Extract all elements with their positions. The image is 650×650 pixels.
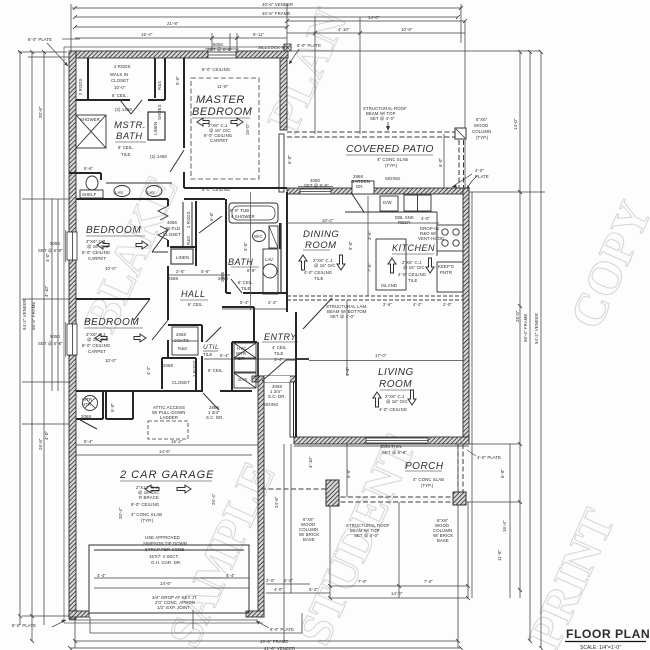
- svg-text:UTIL: UTIL: [203, 344, 219, 351]
- svg-text:16'X7' 4 SECT.: 16'X7' 4 SECT.: [149, 554, 179, 559]
- svg-text:BI-FLD: BI-FLD: [166, 226, 180, 231]
- master bottom / hall top right portion: [184, 187, 287, 189]
- svg-text:W/C: W/C: [254, 234, 263, 239]
- svg-text:5'-6": 5'-6": [84, 166, 93, 171]
- svg-text:6' CEIL.: 6' CEIL.: [112, 93, 128, 98]
- coats closet shelves: [172, 327, 198, 355]
- svg-text:2'-0": 2'-0": [266, 578, 275, 583]
- garage ceiling arrows: [145, 485, 159, 493]
- top wall: [76, 51, 208, 58]
- svg-text:5'-6": 5'-6": [175, 76, 180, 85]
- living left wall: [295, 360, 297, 437]
- closet right: [164, 58, 166, 100]
- top dim row 3b 14-0: [287, 20, 465, 22]
- svg-text:BATH: BATH: [228, 257, 253, 267]
- kitchen dim line: [287, 196, 463, 497]
- svg-text:BASE: BASE: [437, 538, 449, 543]
- svg-text:40'-6" FRAME: 40'-6" FRAME: [260, 639, 288, 644]
- closet left rod column: [87, 58, 89, 100]
- svg-text:4'-0": 4'-0": [44, 431, 49, 440]
- svg-text:5'-6": 5'-6": [209, 212, 214, 221]
- svg-text:R&S: R&S: [178, 346, 187, 351]
- svg-text:4'-2": 4'-2": [413, 302, 422, 307]
- svg-text:8'-0" CEILING: 8'-0" CEILING: [202, 187, 231, 192]
- svg-text:(TYP.): (TYP.): [385, 163, 398, 168]
- svg-text:8'-0" TUB: 8'-0" TUB: [230, 208, 249, 213]
- svg-text:4'-0" CEILING: 4'-0" CEILING: [304, 270, 333, 275]
- svg-text:6'-0": 6'-0": [287, 155, 292, 164]
- kitchen ceiling arrows: [388, 258, 396, 273]
- svg-text:4'-0": 4'-0": [274, 587, 283, 592]
- svg-text:SET @ 6'-8": SET @ 6'-8": [207, 47, 232, 52]
- svg-text:2'-0": 2'-0": [284, 578, 293, 583]
- bedroom2 top wall: [76, 198, 168, 200]
- svg-text:@ 16" O/C: @ 16" O/C: [403, 265, 425, 270]
- svg-text:(2) 1468: (2) 1468: [115, 107, 132, 112]
- top extension verticals: [70, 4, 72, 51]
- closet bottom: [76, 99, 130, 101]
- svg-text:SET @ 4'-0": SET @ 4'-0": [354, 533, 379, 538]
- master right wall: [280, 58, 287, 130]
- sillcock symbol: [284, 44, 291, 51]
- svg-text:14'-0": 14'-0": [391, 591, 403, 596]
- svg-text:LINEN: LINEN: [153, 122, 158, 135]
- svg-text:S.C. DR.: S.C. DR.: [206, 415, 224, 420]
- svg-text:14'-0": 14'-0": [513, 118, 518, 130]
- svg-text:TILE: TILE: [314, 276, 324, 281]
- svg-text:5'-4": 5'-4": [240, 300, 249, 305]
- svg-text:TILE: TILE: [274, 351, 284, 356]
- svg-text:4'-0": 4'-0": [45, 253, 50, 262]
- svg-text:29'-4": 29'-4": [211, 493, 216, 505]
- svg-text:ROOM: ROOM: [305, 240, 337, 251]
- svg-text:21'-8": 21'-8": [167, 21, 179, 26]
- garage right wall: [258, 376, 264, 617]
- water heater room: [83, 396, 98, 411]
- svg-text:ISLAND: ISLAND: [381, 283, 397, 288]
- svg-text:MSTR.: MSTR.: [114, 120, 146, 131]
- svg-text:2668: 2668: [218, 276, 228, 281]
- main bath lav counter: [263, 249, 278, 294]
- svg-text:2068: 2068: [163, 363, 173, 368]
- svg-text:SET @ 4'-0": SET @ 4'-0": [330, 314, 355, 319]
- svg-text:WOOD: WOOD: [474, 123, 488, 128]
- svg-text:4'-0": 4'-0": [421, 216, 430, 221]
- svg-text:10'-2": 10'-2": [322, 218, 334, 223]
- hall bottom walls / util area: [168, 324, 202, 326]
- svg-text:14'-0": 14'-0": [368, 15, 380, 20]
- svg-text:LINEN: LINEN: [176, 255, 189, 260]
- svg-text:15'-4": 15'-4": [141, 32, 153, 37]
- wtr htr room bottom-left: [76, 418, 103, 420]
- svg-text:15'-0": 15'-0": [245, 123, 250, 135]
- svg-text:SHELF: SHELF: [82, 192, 97, 197]
- svg-text:10'-0": 10'-0": [105, 358, 117, 363]
- svg-text:4'-0" CEILING: 4'-0" CEILING: [379, 407, 408, 412]
- svg-text:SHOES: SHOES: [157, 104, 162, 120]
- svg-text:USE APPROVED: USE APPROVED: [145, 535, 180, 540]
- mstr lavs counter: [106, 183, 172, 197]
- svg-text:5050: 5050: [50, 334, 60, 339]
- svg-text:4'-10": 4'-10": [338, 27, 350, 32]
- svg-text:4'-0" PLATE: 4'-0" PLATE: [477, 455, 501, 460]
- svg-text:LAV.: LAV.: [115, 190, 124, 195]
- svg-text:SHOWER: SHOWER: [80, 117, 100, 122]
- porch columns w/ brick base: [326, 480, 339, 506]
- svg-text:8'-0" CEILING: 8'-0" CEILING: [131, 502, 160, 507]
- svg-text:8' CEIL: 8' CEIL: [188, 302, 203, 307]
- top dim row 1 veneer: [72, 7, 461, 9]
- svg-text:CLOSET: CLOSET: [163, 232, 181, 237]
- top dim row 4: [75, 37, 287, 39]
- svg-text:1/2" EXP. JOINT: 1/2" EXP. JOINT: [157, 605, 190, 610]
- bath walls: [225, 199, 227, 293]
- svg-text:4" CONC SLAB: 4" CONC SLAB: [377, 157, 408, 162]
- svg-text:FLOOR PLAN: FLOOR PLAN: [566, 627, 650, 641]
- svg-text:COLUMN: COLUMN: [472, 129, 491, 134]
- veneer outline: [64, 47, 292, 623]
- svg-text:2 RODS: 2 RODS: [114, 64, 131, 69]
- svg-text:2668: 2668: [168, 276, 178, 281]
- svg-text:7'-0": 7'-0": [358, 579, 367, 584]
- svg-text:16'-2": 16'-2": [171, 439, 183, 444]
- master left wall: [183, 58, 185, 148]
- svg-text:26'-0": 26'-0": [515, 310, 520, 322]
- svg-text:GAS: GAS: [238, 377, 247, 382]
- porch: [333, 496, 460, 498]
- svg-text:4" CONC SLAB: 4" CONC SLAB: [413, 477, 444, 482]
- svg-text:2 RODS: 2 RODS: [186, 211, 191, 228]
- kitchen counter: [345, 174, 477, 292]
- svg-text:RESP.: RESP.: [398, 220, 411, 225]
- svg-text:3'-0": 3'-0": [243, 242, 248, 251]
- svg-text:SILLCOCK ⊞: SILLCOCK ⊞: [258, 45, 285, 50]
- svg-text:VENT HOOD: VENT HOOD: [418, 236, 444, 241]
- dining ceiling arrows: [299, 255, 307, 270]
- patio column: [455, 128, 466, 139]
- svg-text:LAV.: LAV.: [265, 257, 274, 262]
- living bottom wall: [294, 437, 469, 444]
- svg-text:4' CEIL: 4' CEIL: [272, 345, 287, 350]
- svg-text:8'-0" CEILING: 8'-0" CEILING: [82, 343, 111, 348]
- kitchen top wall: [287, 188, 469, 194]
- svg-text:DR.: DR.: [356, 184, 364, 189]
- svg-text:BASE: BASE: [303, 537, 315, 542]
- top dim row 2 frame: [75, 16, 458, 18]
- right wall: [463, 188, 469, 444]
- svg-text:CARPET: CARPET: [88, 256, 106, 261]
- svg-text:11'-8": 11'-8": [217, 84, 229, 89]
- svg-text:PORCH: PORCH: [405, 461, 444, 472]
- svg-text:COVERED PATIO: COVERED PATIO: [346, 144, 434, 155]
- attic access dashed: [148, 421, 188, 439]
- svg-text:6"X6": 6"X6": [476, 117, 488, 122]
- window sill lines: [66, 49, 334, 357]
- svg-text:SIDING: SIDING: [263, 402, 279, 407]
- svg-text:16'-4": 16'-4": [502, 520, 507, 532]
- svg-text:4'-10": 4'-10": [44, 285, 49, 297]
- svg-text:17'-0": 17'-0": [375, 353, 387, 358]
- svg-text:KITCHEN: KITCHEN: [392, 243, 435, 253]
- svg-text:10'-0": 10'-0": [105, 266, 117, 271]
- svg-text:5'-0": 5'-0": [110, 403, 115, 412]
- mstr wc: [86, 176, 98, 190]
- svg-text:HTR: HTR: [82, 402, 91, 407]
- svg-text:CARPET: CARPET: [88, 349, 106, 354]
- right top link line: [287, 50, 541, 52]
- svg-text:BATH: BATH: [116, 131, 143, 142]
- svg-text:2068: 2068: [81, 414, 91, 419]
- svg-text:HALL: HALL: [181, 289, 206, 299]
- svg-text:8' CEIL: 8' CEIL: [208, 368, 223, 373]
- svg-text:2 RODS: 2 RODS: [192, 360, 197, 377]
- svg-text:8' CEIL.: 8' CEIL.: [238, 280, 254, 285]
- svg-text:(TYP.): (TYP.): [141, 518, 154, 523]
- svg-text:56'-4" FRAME: 56'-4" FRAME: [31, 302, 36, 330]
- svg-text:STRAP PER CODE: STRAP PER CODE: [145, 547, 184, 552]
- svg-text:40'-6" VENEER: 40'-6" VENEER: [262, 2, 293, 7]
- svg-text:7'-0": 7'-0": [424, 579, 433, 584]
- svg-text:2'-6": 2'-6": [176, 269, 185, 274]
- svg-text:COATS: COATS: [174, 338, 189, 343]
- svg-text:4'-10": 4'-10": [308, 456, 313, 468]
- hall linen: [171, 249, 193, 264]
- bedroom2/3 wall: [76, 298, 150, 300]
- bedrooms / hall wall + bd2 closet: [167, 199, 169, 206]
- svg-text:40'-6" FRAME: 40'-6" FRAME: [262, 11, 290, 16]
- svg-text:KEEP'G: KEEP'G: [438, 264, 455, 269]
- svg-text:TILE: TILE: [203, 352, 213, 357]
- svg-text:@ 16" O/C: @ 16" O/C: [314, 263, 336, 268]
- svg-text:(TYP.): (TYP.): [421, 483, 434, 488]
- patio left wall thin: [279, 134, 284, 192]
- svg-text:D/W: D/W: [383, 200, 392, 205]
- svg-text:@ 16" O/C: @ 16" O/C: [386, 399, 408, 404]
- svg-text:8'-0" PLATE: 8'-0" PLATE: [297, 43, 321, 48]
- linen mstr: [148, 112, 165, 140]
- svg-text:94'-2" VENEER: 94'-2" VENEER: [22, 299, 27, 330]
- garden window bump: [352, 181, 374, 194]
- svg-text:LIVING: LIVING: [378, 367, 414, 378]
- svg-text:SIDING: SIDING: [385, 176, 401, 181]
- svg-text:BEDROOM: BEDROOM: [86, 225, 141, 236]
- entry walls: [253, 307, 255, 342]
- svg-text:4'-4": 4'-4": [226, 573, 235, 578]
- windows on left wall: [67, 232, 77, 355]
- svg-text:MASTER: MASTER: [196, 94, 245, 106]
- svg-text:56'-4" FRAME: 56'-4" FRAME: [523, 314, 528, 342]
- left wall: [69, 51, 76, 232]
- garage door rect: [89, 545, 249, 613]
- svg-text:6'-8": 6'-8": [500, 469, 505, 478]
- svg-text:2'-0": 2'-0": [443, 302, 452, 307]
- svg-text:5'-2": 5'-2": [309, 587, 318, 592]
- svg-text:4'-4": 4'-4": [274, 357, 283, 362]
- svg-text:WALK IN: WALK IN: [110, 72, 128, 77]
- garage top wall: [76, 390, 203, 392]
- svg-text:SET @ 6'-8": SET @ 6'-8": [382, 450, 407, 455]
- svg-text:CLOSET: CLOSET: [111, 78, 129, 83]
- svg-text:CLOSET: CLOSET: [172, 380, 190, 385]
- svg-text:DR: DR: [238, 356, 244, 361]
- svg-text:4'-2": 4'-2": [146, 366, 151, 375]
- svg-text:R&S: R&S: [186, 236, 191, 245]
- utility: hvac/washer/dryer stack: [234, 343, 256, 388]
- walkway right wall: [290, 382, 296, 437]
- left ticks: [18, 51, 67, 53]
- svg-text:14'-6": 14'-6": [159, 449, 171, 454]
- svg-text:41'-6" VENEER: 41'-6" VENEER: [264, 646, 295, 650]
- svg-text:8'-0" PLATE: 8'-0" PLATE: [12, 623, 36, 628]
- svg-text:9'-0": 9'-0": [348, 241, 353, 250]
- main bath tub: [229, 203, 278, 223]
- svg-text:(2) 1468: (2) 1468: [150, 154, 167, 159]
- svg-text:26'-8": 26'-8": [38, 438, 43, 450]
- svg-text:14'-6": 14'-6": [160, 581, 172, 586]
- svg-text:8'-0" CEILING: 8'-0" CEILING: [82, 250, 111, 255]
- svg-text:10'-0": 10'-0": [114, 85, 126, 90]
- svg-text:R BRACE: R BRACE: [139, 495, 159, 500]
- bottom wall garage w/ door opening: [69, 611, 89, 617]
- svg-text:SET @ 6'-8": SET @ 6'-8": [38, 341, 63, 346]
- svg-text:20'-8": 20'-8": [38, 106, 43, 118]
- svg-text:4066: 4066: [167, 220, 177, 225]
- svg-text:4 SHOWER: 4 SHOWER: [231, 214, 255, 219]
- shower mstr: [76, 115, 106, 148]
- joist direction arrows: [95, 118, 434, 493]
- svg-text:DINING: DINING: [303, 229, 339, 240]
- svg-text:BEDROOM: BEDROOM: [192, 106, 253, 118]
- svg-text:2 RODS: 2 RODS: [78, 78, 83, 95]
- svg-text:6'-6": 6'-6": [247, 268, 256, 273]
- svg-text:20'-4": 20'-4": [118, 507, 123, 519]
- svg-text:S.C. DR.: S.C. DR.: [268, 394, 286, 399]
- svg-text:4" CONC SLAB: 4" CONC SLAB: [131, 512, 162, 517]
- svg-text:5050: 5050: [50, 241, 60, 246]
- svg-text:2'-6": 2'-6": [383, 302, 392, 307]
- svg-text:CARPET: CARPET: [210, 138, 228, 143]
- svg-text:2 CAR GARAGE: 2 CAR GARAGE: [119, 469, 215, 481]
- svg-text:6'-4": 6'-4": [220, 353, 229, 358]
- svg-text:5'-6": 5'-6": [201, 269, 210, 274]
- top dim row 3 21-8: [75, 26, 287, 28]
- svg-text:PNTR: PNTR: [440, 270, 452, 275]
- svg-text:ROOM: ROOM: [379, 379, 412, 390]
- svg-text:11'-8": 11'-8": [497, 549, 502, 561]
- svg-text:8'-0" PLATE: 8'-0" PLATE: [28, 37, 52, 42]
- svg-text:3050 THIN: 3050 THIN: [380, 444, 402, 449]
- svg-text:(TYP.): (TYP.): [476, 135, 489, 140]
- svg-text:PLATE: PLATE: [475, 174, 489, 179]
- svg-text:8' CEIL.: 8' CEIL.: [118, 145, 134, 150]
- svg-text:LAV.: LAV.: [147, 190, 156, 195]
- svg-text:TILE: TILE: [408, 278, 418, 283]
- entry bottom wall: [252, 376, 296, 382]
- svg-text:TILE: TILE: [121, 152, 131, 157]
- svg-text:LADDER: LADDER: [160, 415, 178, 420]
- svg-text:ENTRY: ENTRY: [264, 332, 297, 342]
- svg-text:9'-11": 9'-11": [253, 32, 265, 37]
- svg-text:SCALE: 1/4"=1'-0": SCALE: 1/4"=1'-0": [580, 645, 621, 650]
- svg-text:9'-6": 9'-6": [345, 367, 350, 376]
- svg-text:R&S: R&S: [157, 81, 162, 90]
- svg-text:24'-8": 24'-8": [274, 496, 279, 508]
- svg-text:SET @ 6'-8": SET @ 6'-8": [38, 248, 63, 253]
- svg-text:O.H. GAR. DR.: O.H. GAR. DR.: [151, 560, 181, 565]
- svg-text:10'-8": 10'-8": [401, 27, 413, 32]
- svg-text:8'-0" PLATE: 8'-0" PLATE: [270, 627, 294, 632]
- svg-text:4'-4": 4'-4": [97, 573, 106, 578]
- svg-text:TILE: TILE: [241, 286, 251, 291]
- svg-text:SIMPSON TIE DOWN: SIMPSON TIE DOWN: [143, 541, 187, 546]
- title: [565, 627, 650, 650]
- left dim verticals: [19, 52, 21, 625]
- svg-text:4'-0" CEILING: 4'-0" CEILING: [398, 272, 427, 277]
- svg-text:5'-4": 5'-4": [84, 439, 93, 444]
- svg-text:BEDROOM: BEDROOM: [84, 317, 139, 328]
- svg-text:8'-0" CEILING: 8'-0" CEILING: [202, 67, 231, 72]
- svg-text:SET @ 4'-0": SET @ 4'-0": [370, 116, 395, 121]
- bottom dims: [75, 640, 458, 642]
- right dim verticals: [519, 52, 521, 598]
- bifold door zigzags bd2 closet: [158, 206, 222, 240]
- svg-text:2668: 2668: [176, 332, 186, 337]
- main bath wc: [253, 231, 266, 242]
- svg-text:4'-0": 4'-0": [475, 168, 484, 173]
- svg-text:2'-2": 2'-2": [268, 300, 277, 305]
- svg-text:54'-2" VENEER: 54'-2" VENEER: [534, 313, 539, 344]
- concrete apron: [69, 613, 302, 633]
- svg-text:SET @ 6'-8": SET @ 6'-8": [304, 183, 329, 188]
- svg-text:6'-0": 6'-0": [438, 158, 443, 167]
